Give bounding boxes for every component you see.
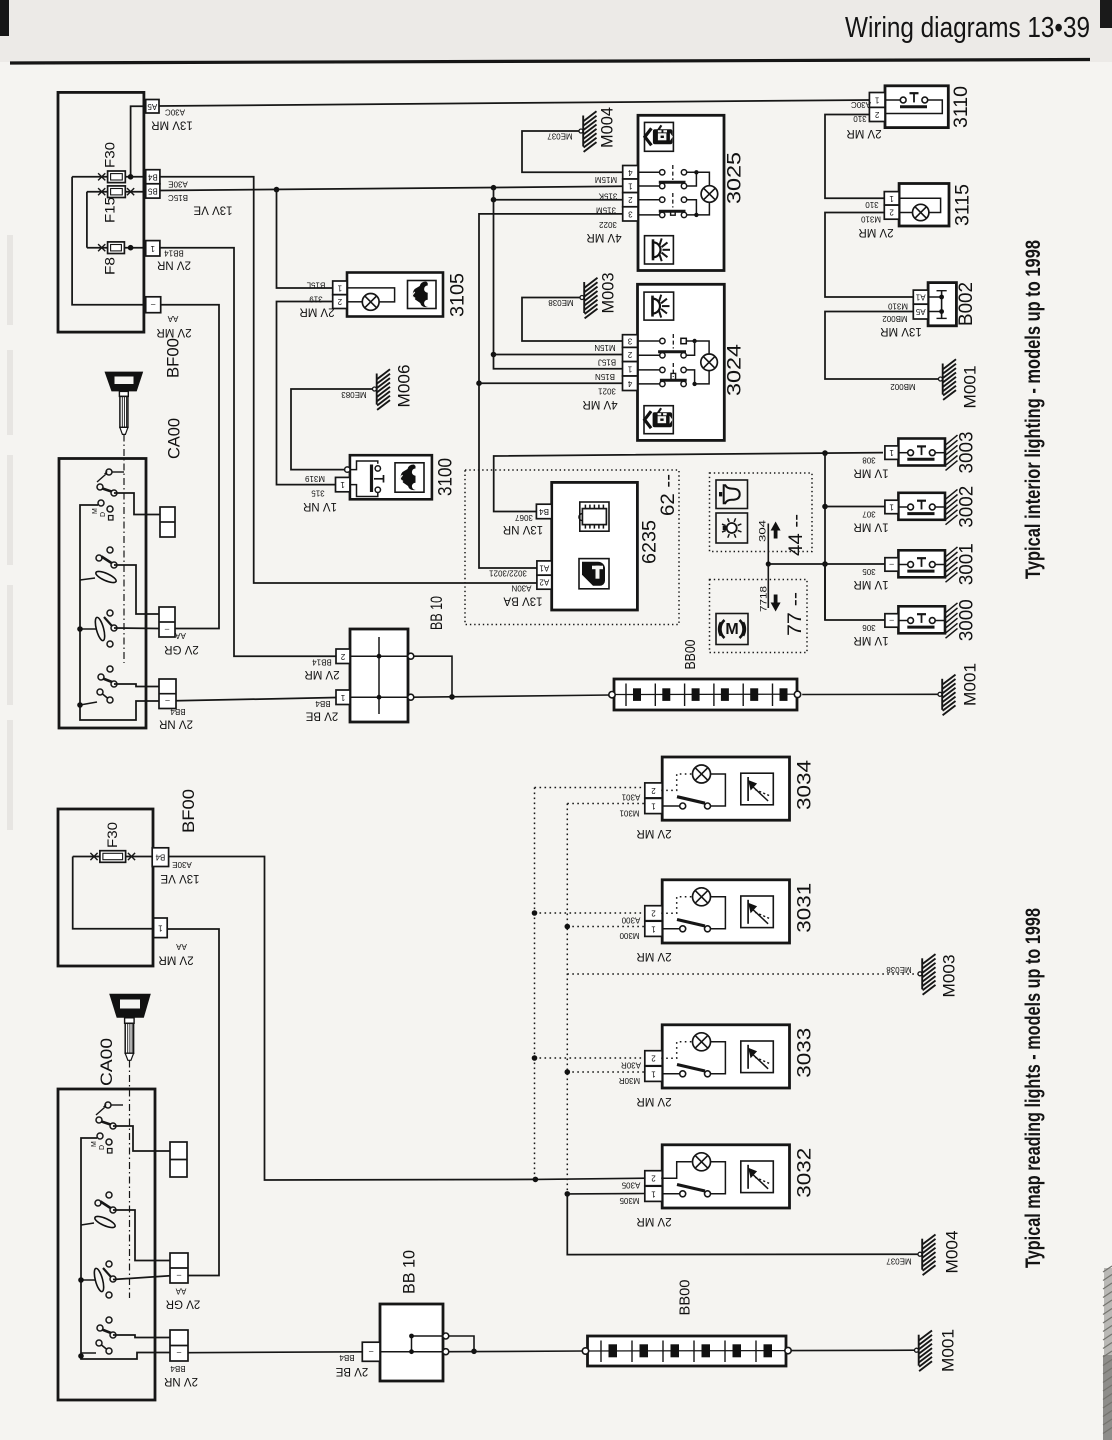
label 3105 — [448, 273, 469, 317]
svg-text:3033: 3033 — [795, 1028, 816, 1078]
svg-text:2V MR: 2V MR — [158, 954, 193, 966]
connector unit B002 — [913, 283, 956, 326]
label MB002 at ground — [890, 382, 916, 391]
ignition contact set 1 — [92, 469, 124, 520]
ground M001 lower — [915, 1331, 933, 1372]
labels A300 M300 2V MR — [619, 916, 672, 962]
vertical caption: Typical map reading lights - models up to 1998 — [1022, 908, 1045, 1268]
ignition internal bus — [77, 505, 160, 720]
svg-text:1: 1 — [889, 194, 894, 203]
labels 305 1V MR — [853, 567, 888, 590]
svg-text:BB4: BB4 — [339, 1353, 355, 1362]
connector strip BB00 upper — [609, 679, 801, 710]
wire contact2 to connector — [114, 565, 159, 614]
label B15L 319 2V MR — [299, 280, 334, 317]
labels M15N B15J B15N 3021 4V MR — [582, 343, 617, 410]
map reading lamp 3034 — [645, 757, 790, 820]
svg-text:A30N: A30N — [511, 584, 531, 593]
svg-text:CA00: CA00 — [165, 418, 184, 459]
labels 310 M310 2V MR at 3115 — [858, 200, 893, 238]
svg-text:–: – — [368, 1347, 373, 1356]
label M001 lower — [939, 1329, 958, 1372]
svg-text:2V GR: 2V GR — [164, 643, 199, 655]
wire AA trunk to ignition — [161, 305, 219, 629]
fusebox BF00 — [58, 92, 144, 332]
ignition switch unit box — [59, 459, 146, 729]
svg-text:2V MR: 2V MR — [304, 668, 339, 680]
fuse F8 — [87, 242, 146, 275]
label 44-- — [786, 514, 807, 556]
scan ghost print left margin — [7, 235, 13, 830]
svg-text:M001: M001 — [961, 663, 980, 706]
svg-text:A305: A305 — [621, 1181, 640, 1190]
label 7718 — [759, 586, 770, 612]
wire contact1 to connector lower — [113, 1126, 170, 1151]
svg-text:315: 315 — [311, 488, 325, 497]
wire BF00 internal bus — [72, 177, 146, 305]
svg-text:BB4: BB4 — [315, 699, 331, 708]
svg-text:3002: 3002 — [957, 486, 978, 528]
interior lamp unit 3024 — [623, 284, 725, 440]
ignition connector 3 BB4 — [159, 679, 176, 709]
ignition contact set 2 lower — [93, 1192, 116, 1230]
fuse F30 — [72, 142, 146, 183]
svg-text:2: 2 — [651, 1054, 656, 1063]
svg-text:2: 2 — [337, 297, 342, 306]
labels 308 1V MR — [853, 456, 888, 479]
ground M003 — [580, 278, 598, 319]
svg-text:62 --: 62 -- — [658, 474, 679, 516]
wire BB4 run lower — [188, 1351, 362, 1354]
svg-text:M310: M310 — [887, 302, 908, 311]
svg-text:3022/3021: 3022/3021 — [489, 569, 527, 578]
ground M004 — [579, 111, 597, 152]
connector strip BB00 lower — [582, 1336, 791, 1366]
svg-text:1V MR: 1V MR — [853, 578, 888, 590]
fusebox BF00 lower — [58, 809, 153, 966]
wire B15J branch — [491, 352, 623, 358]
svg-text:–: – — [176, 1349, 181, 1358]
svg-text:M15N: M15N — [594, 343, 616, 352]
svg-text:A301: A301 — [621, 793, 640, 802]
arrow to 304 — [766, 522, 781, 567]
switch unit 3110 — [869, 86, 948, 128]
label 3033 — [795, 1028, 816, 1078]
node junction B15C x493 — [491, 185, 497, 191]
svg-text:3115: 3115 — [953, 184, 974, 226]
svg-text:M301: M301 — [619, 808, 640, 817]
svg-text:–: – — [889, 616, 894, 625]
svg-text:13V MR: 13V MR — [880, 325, 922, 337]
connector AA out — [146, 297, 161, 313]
svg-text:3025: 3025 — [725, 152, 746, 204]
svg-text:304: 304 — [758, 520, 769, 542]
ignition contact set 4 lower — [96, 1317, 116, 1354]
ground M001 at BB00 upper — [938, 675, 956, 716]
svg-text:305: 305 — [862, 567, 876, 576]
svg-text:BB00: BB00 — [677, 1280, 694, 1316]
svg-text:1V MR: 1V MR — [853, 467, 888, 479]
wire M310 net — [825, 213, 913, 298]
door switch 3003 — [885, 435, 958, 470]
svg-text:BB4: BB4 — [170, 707, 186, 716]
wire A30C feed — [159, 100, 869, 106]
label M003 lower — [940, 955, 959, 998]
svg-text:M30R: M30R — [619, 1076, 641, 1085]
svg-text:2: 2 — [627, 350, 632, 359]
svg-text:B4: B4 — [147, 172, 157, 181]
label B002 — [956, 282, 977, 326]
svg-text:MB002: MB002 — [890, 382, 916, 391]
svg-text:F8: F8 — [103, 257, 118, 275]
labels BB4 2V BE lower — [335, 1353, 368, 1377]
svg-text:M004: M004 — [598, 107, 617, 148]
lamp unit 3115 — [884, 184, 949, 227]
vertical caption: Typical interior lighting - models up to 1998 — [1022, 240, 1045, 579]
label ME038 lower — [886, 965, 912, 974]
svg-text:Typical map reading lights - m: Typical map reading lights - models up t… — [1022, 908, 1045, 1268]
svg-text:D: D — [100, 512, 107, 517]
svg-text:2V GR: 2V GR — [166, 1298, 201, 1310]
node junction B15C x277 — [274, 187, 280, 193]
svg-text:F30: F30 — [103, 142, 118, 168]
lamp unit 3105 — [333, 273, 443, 317]
svg-text:A2: A2 — [539, 578, 549, 587]
wire contact4 to connector lower — [113, 1335, 170, 1338]
ground M004 loop wire ME037 — [522, 131, 623, 172]
node junctions M30 chain — [565, 924, 571, 1197]
svg-text:306: 306 — [862, 623, 876, 632]
label ME083 — [341, 390, 367, 399]
svg-text:–: – — [889, 560, 894, 569]
node junction door switch trunk — [822, 450, 828, 456]
svg-text:M: M — [91, 1141, 98, 1147]
dashed boundary 44 — [710, 473, 813, 552]
svg-text:77 --: 77 -- — [785, 592, 806, 636]
svg-text:1: 1 — [340, 480, 345, 489]
label BF00 lower — [179, 789, 198, 833]
ignition connector 2 AA — [159, 607, 175, 637]
ignition contact set 3 lower — [92, 1261, 116, 1298]
svg-text:M003: M003 — [599, 273, 618, 314]
svg-text:BB14: BB14 — [312, 658, 332, 667]
label M001 at BB00 upper — [961, 663, 980, 706]
header rule — [10, 60, 1090, 64]
label 304 — [758, 520, 769, 542]
label 3034 — [795, 760, 816, 810]
svg-text:308: 308 — [862, 456, 876, 465]
svg-text:3021: 3021 — [598, 387, 616, 396]
connector B4 lower — [152, 848, 168, 867]
wire BB00 to ground M001 — [802, 693, 938, 695]
lighting symbol box — [716, 513, 748, 543]
wire contact3 to connector — [114, 627, 159, 630]
svg-text:1: 1 — [651, 1069, 656, 1078]
svg-text:13V VE: 13V VE — [160, 872, 199, 884]
connector A5 — [146, 100, 159, 114]
svg-text:1: 1 — [874, 95, 879, 104]
door switch 3002 — [885, 489, 958, 524]
connector 1 BB14 — [146, 241, 160, 256]
svg-text:A30R: A30R — [621, 1061, 641, 1070]
svg-text:2V MR: 2V MR — [636, 1215, 671, 1227]
svg-text:ME038: ME038 — [886, 965, 912, 974]
svg-text:2V MR: 2V MR — [299, 306, 334, 318]
ignition key CA00 lower — [109, 994, 151, 1061]
labels A305 M305 2V MR — [619, 1181, 672, 1227]
wire M319 to ground M006 — [291, 389, 374, 470]
wire to switch 3000 — [825, 564, 885, 620]
svg-text:F30: F30 — [105, 822, 120, 848]
label 3000 — [957, 599, 978, 641]
wire A30E trunk lower — [169, 857, 647, 1181]
svg-text:2V NR: 2V NR — [159, 718, 193, 730]
ground M006 — [373, 369, 391, 410]
ignition internal bus lower — [78, 1138, 170, 1359]
svg-text:13V MR: 13V MR — [151, 119, 193, 131]
wire BB10 to BB00 upper — [414, 656, 611, 700]
interior lamp unit 3025 — [623, 115, 724, 270]
svg-text:AA: AA — [175, 631, 186, 640]
svg-text:B4: B4 — [155, 853, 165, 862]
svg-text:A300: A300 — [621, 916, 640, 925]
door switch 3001 — [885, 547, 958, 582]
svg-text:BB 10: BB 10 — [400, 1250, 419, 1294]
arrow to 7718 — [768, 564, 780, 612]
svg-text:319: 319 — [309, 295, 323, 304]
svg-text:3034: 3034 — [795, 760, 816, 810]
wire BB10 to BB00 lower — [449, 1336, 585, 1354]
label M004 — [598, 107, 617, 148]
svg-text:–: – — [176, 1271, 181, 1280]
svg-text:M15M: M15M — [595, 175, 618, 184]
label 77-- — [785, 592, 806, 636]
svg-text:13V VE: 13V VE — [193, 204, 232, 216]
horn symbol box — [716, 480, 748, 509]
svg-text:M319: M319 — [304, 474, 325, 483]
wire trunk B15 chain down — [493, 188, 495, 357]
svg-text:AA: AA — [176, 942, 187, 951]
svg-text:307: 307 — [862, 510, 876, 519]
label BB14 2V NR — [157, 249, 191, 271]
labels AA 2V GR lower — [166, 1287, 201, 1310]
svg-text:Typical interior lighting - mo: Typical interior lighting - models up to… — [1022, 240, 1045, 579]
svg-text:A30E: A30E — [172, 860, 192, 869]
labels 306 1V MR — [853, 623, 888, 646]
svg-text:3067: 3067 — [515, 513, 533, 522]
svg-text:315K: 315K — [598, 192, 617, 201]
svg-text:1: 1 — [627, 364, 632, 373]
svg-text:3000: 3000 — [957, 599, 978, 641]
svg-text:2V NR: 2V NR — [157, 259, 191, 271]
motor symbol box — [716, 614, 748, 645]
svg-text:AA: AA — [167, 314, 178, 323]
wire 315K — [491, 197, 623, 203]
svg-text:1V NR: 1V NR — [303, 500, 337, 512]
labels A30R M30R 2V MR — [619, 1061, 672, 1107]
label M004 lower — [943, 1231, 962, 1274]
labels BB4 2V BE at BB10 — [305, 699, 338, 722]
label BB10 upper — [427, 596, 446, 630]
svg-text:ME037: ME037 — [886, 1257, 912, 1266]
label BF00 — [164, 338, 183, 378]
svg-text:1: 1 — [651, 924, 656, 933]
label A30E B15C 13V VE — [168, 180, 233, 216]
svg-text:2V MR: 2V MR — [858, 226, 893, 238]
svg-text:3031: 3031 — [795, 883, 816, 933]
labels BB14 2V MR at BB10 — [304, 658, 339, 681]
svg-text:1V MR: 1V MR — [853, 521, 888, 533]
wire to switch 3001 — [768, 561, 885, 567]
ignition connector 1 — [160, 507, 175, 537]
key dash-dot line lower — [129, 1061, 131, 1299]
svg-text:BF00: BF00 — [179, 789, 198, 833]
label CA00 — [165, 418, 184, 459]
label M319 315 1V NR — [303, 474, 337, 512]
label 3025 — [725, 152, 746, 204]
label 3115 — [953, 184, 974, 226]
label ME037 lower — [886, 1257, 912, 1266]
svg-text:B15C: B15C — [168, 193, 188, 202]
labels 3022/3021 A30N 13V BA — [489, 569, 543, 607]
svg-text:1: 1 — [337, 283, 342, 292]
scan artifact top-left — [0, 0, 9, 36]
label 3100 — [436, 458, 457, 496]
svg-text:1: 1 — [651, 802, 656, 811]
labels A30C 310 2V MR at 3110 — [846, 100, 881, 139]
svg-text:1V MR: 1V MR — [853, 634, 888, 646]
svg-text:CA00: CA00 — [97, 1038, 116, 1086]
svg-text:–: – — [164, 625, 169, 634]
svg-text:6235: 6235 — [640, 520, 661, 564]
ground M004 lower — [918, 1235, 936, 1276]
dashed boundary 62 — [465, 470, 679, 625]
svg-text:B15L: B15L — [306, 280, 325, 289]
svg-text:2V MR: 2V MR — [636, 1095, 671, 1107]
labels A30E 13V VE lower — [160, 860, 199, 884]
svg-text:2: 2 — [874, 110, 879, 119]
label BB4 2V NR — [159, 707, 193, 730]
ignition contact set 3 — [93, 610, 117, 647]
switch unit 3100 — [336, 455, 432, 499]
svg-text:2V MR: 2V MR — [156, 326, 191, 338]
svg-text:BF00: BF00 — [164, 338, 183, 378]
ignition contact set 4 — [97, 666, 117, 703]
svg-text:4V MR: 4V MR — [586, 231, 621, 243]
label ME038 — [548, 298, 574, 307]
svg-text:A1: A1 — [539, 564, 549, 573]
svg-text:Wiring diagrams 13•39: Wiring diagrams 13•39 — [845, 12, 1090, 44]
wire B15N branch — [494, 355, 623, 369]
connector block BB10 upper — [336, 629, 414, 722]
label 3002 — [957, 486, 978, 528]
svg-text:2V MR: 2V MR — [636, 950, 671, 962]
svg-text:M003: M003 — [940, 955, 959, 998]
svg-text:44 --: 44 -- — [786, 514, 807, 556]
label CA00 lower — [97, 1038, 116, 1086]
svg-text:3001: 3001 — [957, 543, 978, 585]
svg-text:M004: M004 — [943, 1231, 962, 1274]
svg-text:3024: 3024 — [725, 343, 746, 396]
label 3003 — [957, 432, 978, 474]
wire BB14 trunk to BB10 — [160, 248, 336, 657]
key dash-dot line — [123, 435, 125, 664]
wire B15C feed — [160, 186, 623, 190]
svg-text:M: M — [725, 621, 738, 638]
svg-text:M310: M310 — [860, 215, 881, 224]
label 6235 — [640, 520, 661, 564]
map reading lamp 3033 — [645, 1025, 790, 1088]
ignition connector 1 lower — [170, 1142, 187, 1177]
svg-text:A5: A5 — [147, 102, 157, 111]
wire door switch trunk — [824, 453, 826, 620]
scan artifact right edge — [1103, 1266, 1112, 1440]
svg-text:BB14: BB14 — [164, 249, 184, 258]
connector 1 lower — [154, 918, 168, 938]
labels AA 2V MR lower — [158, 942, 193, 966]
svg-text:2V BE: 2V BE — [305, 710, 338, 722]
control unit 6235 — [536, 482, 637, 610]
svg-text:2: 2 — [651, 1174, 656, 1183]
wire to switch 3002 — [822, 504, 885, 510]
svg-text:1: 1 — [340, 693, 345, 702]
svg-text:B15J: B15J — [598, 358, 616, 367]
svg-text:BB4: BB4 — [170, 1364, 186, 1373]
connector B4 B5 — [146, 170, 160, 198]
svg-text:3022: 3022 — [599, 220, 617, 229]
wire BB00 to ground M001 lower — [791, 1349, 914, 1351]
svg-text:M006: M006 — [395, 365, 414, 408]
svg-text:3100: 3100 — [436, 458, 457, 496]
page header title — [845, 12, 1090, 44]
svg-text:B4: B4 — [539, 507, 549, 516]
wire contact2 to connector lower — [113, 1210, 170, 1261]
wire M305 to ground M004 lower — [567, 1194, 918, 1255]
svg-text:4: 4 — [627, 379, 632, 388]
label AA 2V MR — [156, 314, 191, 338]
svg-text:1: 1 — [158, 923, 163, 932]
svg-text:1: 1 — [889, 502, 894, 511]
ground M003 loop wire ME038 — [522, 298, 623, 342]
ground M003 lower — [918, 954, 936, 995]
scan artifact top-right — [1100, 0, 1112, 28]
wire 3021 branch — [476, 380, 622, 386]
wire contact3 to connector lower — [113, 1276, 170, 1280]
label A30C 13V MR — [151, 108, 193, 131]
label 3031 — [795, 883, 816, 933]
wire contact4 to connector — [114, 684, 159, 687]
wire A5 internal feed — [131, 106, 146, 177]
svg-text:2: 2 — [340, 652, 345, 661]
wire M30 dotted chain — [567, 804, 918, 1194]
label BB00 lower — [677, 1280, 694, 1316]
label 3001 — [957, 543, 978, 585]
svg-text:2: 2 — [628, 195, 633, 204]
svg-text:–: – — [165, 697, 170, 706]
svg-text:2V MR: 2V MR — [846, 127, 881, 139]
label BB10 lower — [400, 1250, 419, 1294]
node junctions A30 chain — [532, 910, 538, 1061]
wire contact1 to connector — [114, 493, 160, 515]
svg-text:13V BA: 13V BA — [503, 595, 542, 607]
svg-text:M001: M001 — [961, 366, 980, 409]
svg-text:3110: 3110 — [951, 86, 972, 128]
wire B15L to lamp 3105 — [277, 190, 333, 288]
label BB00 upper — [682, 640, 699, 670]
wire 319 3105 to 3100 — [277, 302, 336, 485]
label 62-- — [658, 474, 679, 516]
svg-text:ME038: ME038 — [548, 298, 574, 307]
